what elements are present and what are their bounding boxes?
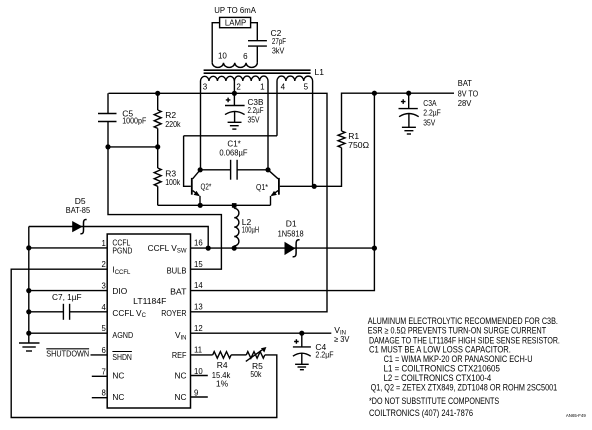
svg-text:10: 10	[194, 367, 203, 376]
svg-text:AGND: AGND	[112, 330, 133, 340]
svg-text:9: 9	[194, 388, 198, 397]
svg-text:Q2*: Q2*	[201, 181, 212, 191]
svg-text:UP TO 6mA: UP TO 6mA	[214, 5, 256, 15]
svg-text:3kV: 3kV	[272, 45, 285, 55]
svg-text:ROYER: ROYER	[161, 308, 186, 318]
svg-text:5: 5	[101, 324, 106, 333]
svg-text:DIO: DIO	[112, 286, 127, 296]
svg-text:1000pF: 1000pF	[122, 115, 146, 125]
svg-text:Q1*: Q1*	[256, 182, 269, 192]
svg-text:100µH: 100µH	[242, 224, 259, 234]
svg-text:100k: 100k	[165, 177, 181, 187]
svg-text:LT1184F: LT1184F	[133, 296, 166, 306]
svg-text:1N5818: 1N5818	[278, 229, 304, 239]
svg-text:2.2µF: 2.2µF	[248, 105, 264, 115]
svg-text:10: 10	[218, 51, 227, 60]
svg-text:BAT-85: BAT-85	[66, 205, 91, 215]
svg-text:REF: REF	[172, 350, 187, 360]
svg-text:50k: 50k	[250, 369, 262, 379]
svg-text:BAT: BAT	[458, 78, 472, 88]
svg-text:3: 3	[203, 82, 208, 91]
svg-text:1%: 1%	[216, 379, 229, 389]
svg-text:AN65-F49: AN65-F49	[566, 413, 586, 418]
svg-text:28V: 28V	[458, 98, 472, 108]
svg-text:R4: R4	[217, 360, 228, 370]
svg-text:CCFL VC: CCFL VC	[112, 308, 146, 319]
svg-text:11: 11	[194, 346, 202, 355]
svg-text:750Ω: 750Ω	[348, 140, 369, 150]
svg-text:NC: NC	[112, 370, 124, 380]
svg-text:SHUTDOWN: SHUTDOWN	[46, 349, 89, 359]
svg-text:6: 6	[243, 52, 248, 61]
svg-text:COILTRONICS (407) 241-7876: COILTRONICS (407) 241-7876	[369, 408, 473, 418]
svg-text:1: 1	[260, 82, 265, 91]
svg-text:35V: 35V	[423, 118, 435, 128]
svg-text:7: 7	[101, 367, 105, 376]
svg-text:PGND: PGND	[112, 245, 132, 255]
svg-text:BAT: BAT	[170, 287, 186, 297]
svg-text:≥ 3V: ≥ 3V	[334, 334, 350, 344]
svg-text:2: 2	[236, 82, 241, 91]
svg-text:220k: 220k	[165, 119, 181, 129]
svg-text:4: 4	[101, 303, 106, 312]
svg-text:Q1, Q2 = ZETEX ZTX849, ZDT1048: Q1, Q2 = ZETEX ZTX849, ZDT1048 OR ROHM 2…	[371, 383, 558, 393]
svg-text:2.2µF: 2.2µF	[423, 107, 441, 117]
svg-text:1: 1	[101, 239, 105, 248]
svg-text:13: 13	[194, 302, 203, 311]
svg-text:C1 MUST BE A LOW LOSS CAPACITO: C1 MUST BE A LOW LOSS CAPACITOR.	[369, 344, 511, 354]
svg-text:14: 14	[194, 281, 203, 290]
svg-text:2.2µF: 2.2µF	[315, 350, 333, 360]
svg-text:C7, 1µF: C7, 1µF	[52, 292, 82, 302]
svg-text:15: 15	[194, 260, 203, 269]
svg-text:3: 3	[101, 282, 105, 291]
svg-text:35V: 35V	[248, 114, 260, 124]
svg-text:12: 12	[194, 324, 203, 333]
svg-text:NC: NC	[175, 371, 187, 381]
svg-text:0.068µF: 0.068µF	[219, 148, 247, 158]
svg-text:NC: NC	[112, 392, 124, 402]
svg-text:4: 4	[281, 83, 286, 92]
svg-text:NC: NC	[175, 392, 187, 402]
svg-text:LAMP: LAMP	[225, 17, 247, 27]
svg-text:5: 5	[304, 83, 309, 92]
svg-text:8: 8	[101, 389, 105, 398]
svg-text:L1: L1	[315, 67, 325, 77]
svg-text:*DO NOT SUBSTITUTE COMPONENTS: *DO NOT SUBSTITUTE COMPONENTS	[369, 396, 499, 406]
svg-text:D1: D1	[286, 219, 297, 229]
svg-text:L1 = COILTRONICS CTX210605: L1 = COILTRONICS CTX210605	[384, 364, 500, 374]
svg-text:16: 16	[194, 239, 203, 248]
svg-text:SHDN: SHDN	[112, 352, 132, 362]
svg-text:BULB: BULB	[167, 265, 187, 275]
svg-text:6: 6	[101, 346, 105, 355]
svg-text:2: 2	[101, 260, 105, 269]
svg-text:C1 = WIMA MKP-20 OR PANASONIC: C1 = WIMA MKP-20 OR PANASONIC ECH-U	[384, 354, 533, 364]
svg-text:ESR ≥ 0.5Ω PREVENTS TURN-ON SU: ESR ≥ 0.5Ω PREVENTS TURN-ON SURGE CURREN…	[368, 326, 547, 336]
